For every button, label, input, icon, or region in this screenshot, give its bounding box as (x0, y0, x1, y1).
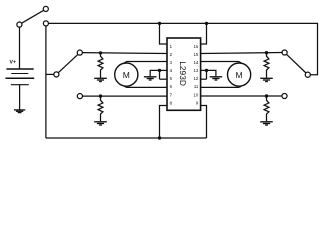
pin 1 stub + tab to top rail (160, 25, 168, 44)
wire to ground pins 4-5 (150, 70, 159, 76)
IC U1 body (167, 38, 201, 110)
battery V+ plate long top (6, 68, 33, 70)
node dot pins 12-13 (205, 69, 208, 72)
svg-text:2: 2 (170, 52, 173, 57)
motor M2 (228, 63, 251, 86)
svg-text:M: M (123, 70, 130, 80)
wire row pin10 (201, 95, 282, 97)
ground (R2) (94, 122, 107, 125)
pin 9 stub + tab to bottom rail (201, 106, 207, 139)
motor M1 (115, 63, 138, 86)
svg-text:L293D: L293D (178, 61, 188, 86)
wire row pin2 (82, 52, 167, 55)
pin 16 stub + tab to top rail (201, 25, 207, 44)
open contact circle row pin10 (282, 93, 287, 98)
pin 4 stub (160, 69, 168, 71)
pin 8 stub + tab to bottom rail (160, 106, 168, 139)
switch S2 pole circle (54, 72, 59, 77)
pin 13 stub (201, 69, 207, 71)
wire row pin7 (83, 95, 168, 97)
ground (battery) (14, 110, 25, 113)
node dot row pin15 (265, 51, 268, 54)
switch S1 pole circle (17, 22, 22, 27)
resistor R4 (264, 96, 269, 121)
wire motor M1 top to pin 3 (124, 62, 167, 63)
svg-text:8: 8 (170, 100, 173, 105)
resistor R2 (98, 96, 103, 121)
wire joining pins 4-5 (159, 70, 161, 79)
svg-text:V+: V+ (10, 60, 17, 66)
wire joining pins 12-13 (206, 70, 208, 79)
switch S3 contact circle (305, 72, 310, 77)
svg-text:5: 5 (170, 76, 173, 81)
wire to ground pins 12-13 (207, 70, 216, 76)
switch S3 pole circle (282, 50, 287, 55)
switch S2 contact circle (77, 50, 82, 55)
resistor R3 (264, 53, 269, 78)
svg-text:15: 15 (194, 52, 199, 57)
node dot top rail right tab (205, 22, 208, 25)
svg-text:12: 12 (194, 76, 199, 81)
wire battery positive to switch S1 (19, 27, 21, 68)
svg-text:M: M (236, 70, 243, 80)
node dot row pin10 (265, 94, 268, 97)
switch S3 lever (287, 54, 307, 73)
ground (R4) (260, 122, 273, 125)
svg-text:13: 13 (194, 68, 199, 73)
open contact circle row pin7 (77, 94, 82, 99)
left rail wire (45, 26, 47, 138)
wire rail stub to switch S2 (46, 73, 54, 75)
ground (R3) (260, 78, 273, 81)
wire motor M2 bottom to pin 11 (201, 86, 241, 87)
bottom rail wire (46, 137, 207, 139)
node dot row pin2 (99, 51, 102, 54)
node dot row pin7 (99, 94, 102, 97)
svg-text:16: 16 (194, 44, 199, 49)
top rail wire (49, 23, 318, 74)
battery short plate (11, 73, 28, 75)
pin number labels right (194, 44, 199, 105)
svg-text:11: 11 (194, 84, 199, 89)
svg-text:10: 10 (194, 92, 199, 97)
ground (pins 12-13) (210, 77, 223, 80)
pin 5 stub (160, 78, 168, 80)
switch S1 contact circle (node to rails) (43, 21, 48, 26)
pin 12 stub (201, 78, 207, 80)
wire motor M1 bottom to pin 6 (124, 86, 167, 87)
pin number labels left (170, 44, 173, 105)
resistor R1 (98, 53, 103, 78)
wire row pin15 (201, 53, 282, 54)
svg-text:3: 3 (170, 60, 173, 65)
ground (R1) (94, 78, 107, 81)
node dot pins 4-5 (158, 69, 161, 72)
switch S1 lever-tip circle (43, 6, 48, 11)
ground (pins 4-5) (144, 77, 157, 80)
node dot top rail left tab (158, 22, 161, 25)
wire battery negative down (19, 85, 21, 110)
battery long plate (6, 77, 35, 79)
node dot bottom rail (158, 136, 161, 139)
svg-text:4: 4 (170, 68, 173, 73)
svg-text:6: 6 (170, 84, 173, 89)
switch S2 lever (58, 54, 78, 72)
svg-text:14: 14 (194, 60, 199, 65)
svg-text:9: 9 (196, 100, 199, 105)
svg-text:1: 1 (170, 44, 173, 49)
wire motor M2 top to pin 14 (201, 62, 241, 63)
battery short plate bottom (11, 84, 29, 86)
svg-text:7: 7 (170, 92, 173, 97)
switch S1 lever (22, 10, 44, 23)
